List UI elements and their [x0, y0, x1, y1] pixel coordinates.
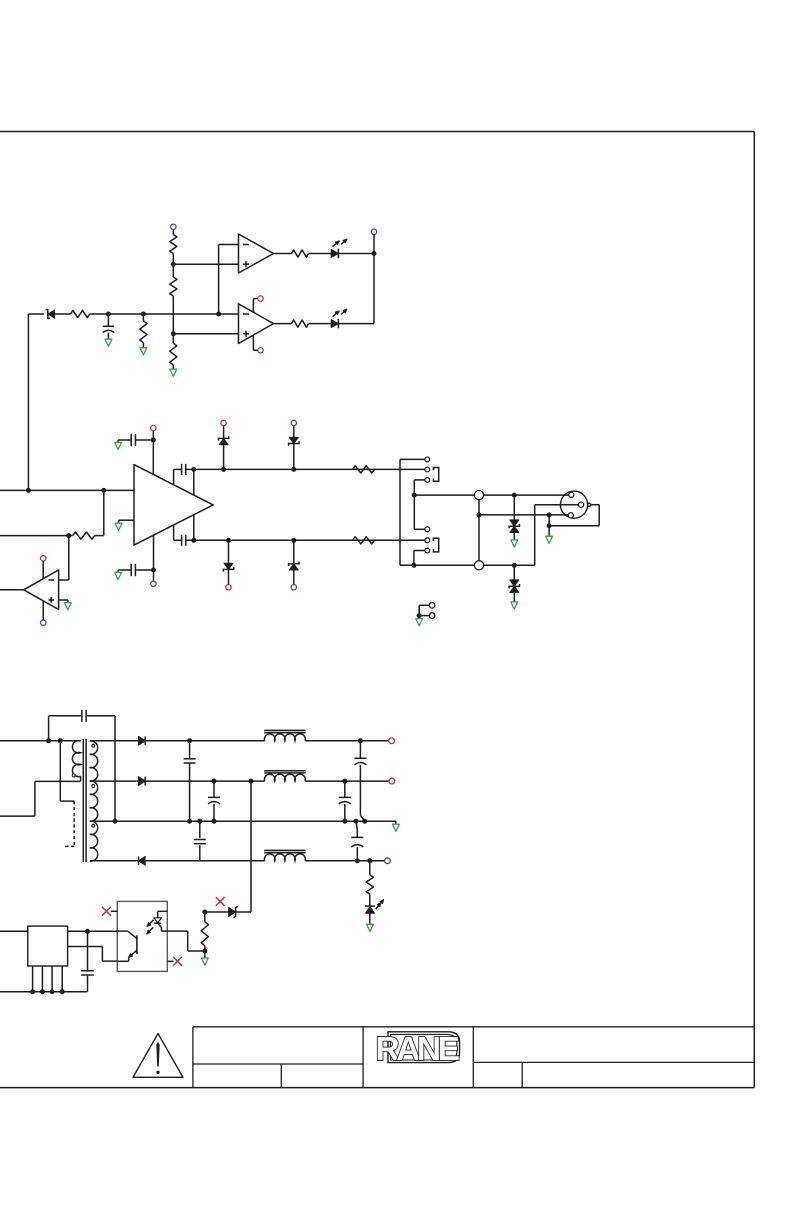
resistor R9 [353, 466, 375, 473]
resistor R4 [71, 310, 90, 317]
terminal D2 [221, 420, 226, 425]
node [212, 819, 217, 824]
wire [548, 515, 550, 526]
capacitor C4 [182, 464, 186, 475]
wire rail4 [90, 860, 385, 862]
binding post BP2 [474, 561, 483, 570]
capacitor C10 [339, 781, 351, 821]
capacitor C3 [118, 564, 153, 576]
wire [145, 740, 265, 742]
title block div-left [280, 1064, 282, 1088]
wire [172, 230, 174, 235]
resistor R6 [292, 250, 309, 257]
node [187, 819, 192, 824]
wire mains neutral [0, 776, 81, 816]
terminal LED bus [371, 229, 376, 234]
ground [115, 572, 122, 579]
wire [478, 500, 480, 561]
wire [68, 930, 118, 932]
capacitor C11 [194, 821, 206, 861]
node snubber left [46, 738, 51, 743]
transformer T1 primary [72, 741, 80, 777]
connector J4 [429, 603, 435, 619]
op-amp U1B [239, 304, 274, 344]
inductor L2 [264, 771, 305, 781]
zener D11 [229, 906, 251, 917]
wire post bus top [414, 494, 474, 496]
wire [250, 781, 252, 912]
wire [42, 561, 44, 579]
diode D10 [139, 856, 146, 865]
node input [26, 488, 31, 493]
node LED bus [372, 251, 377, 256]
terminal U2 V- [41, 620, 46, 625]
node [187, 738, 192, 743]
node [354, 819, 359, 824]
node [512, 563, 517, 568]
node ref-top [171, 262, 176, 267]
node [367, 858, 372, 863]
node [50, 989, 55, 994]
wire rail1 [90, 740, 139, 742]
sheet border right [753, 132, 755, 1088]
resistor R12 [201, 912, 208, 951]
zener D7 bidirectional [509, 565, 519, 602]
wire [186, 539, 425, 541]
node [85, 929, 90, 934]
wire to U1B + input [173, 333, 238, 335]
wire [204, 951, 206, 958]
capacitor C9 [208, 781, 220, 821]
ground [546, 536, 553, 543]
node [202, 910, 207, 915]
op-amp U1A [239, 234, 274, 273]
wire top rail from U3 [174, 469, 182, 484]
wire rail2 [90, 780, 139, 782]
zener D2 [218, 426, 228, 470]
wire J1 tip [400, 459, 474, 565]
zener D5 [289, 540, 299, 584]
wire [305, 780, 389, 782]
XLR shield tab [588, 503, 591, 506]
node [547, 512, 552, 517]
title block top [193, 1026, 754, 1028]
jack J2 (bottom) [425, 527, 439, 553]
wire [145, 780, 265, 782]
node [66, 533, 71, 538]
node [411, 563, 416, 568]
ground [201, 958, 208, 965]
node [358, 738, 363, 743]
wire [27, 314, 29, 490]
terminal D3 [291, 420, 296, 425]
connector XLR J3 shell [560, 491, 587, 518]
ground [511, 602, 518, 609]
wire [68, 947, 118, 962]
warning triangle [133, 1034, 183, 1078]
node [342, 779, 347, 784]
node [60, 989, 65, 994]
transformer T1 core [83, 739, 86, 862]
capacitor C1 [103, 314, 114, 339]
LED DS1 [331, 239, 347, 258]
capacitor C6 snubber [49, 710, 115, 821]
ground [416, 619, 423, 626]
wire U3 V- pin [153, 535, 155, 581]
capacitor C5 [182, 535, 186, 546]
wire U2 output [0, 589, 24, 591]
node U1A - link [216, 312, 221, 317]
wire U1B V- pin [253, 335, 258, 350]
node [417, 613, 422, 618]
resistor R8 [73, 532, 95, 539]
LED DS3 [365, 900, 383, 925]
wire [172, 296, 174, 343]
ground [105, 339, 112, 346]
wire bottom rail [0, 991, 88, 993]
zener D3 [289, 426, 299, 470]
terminal U3 V- [151, 581, 156, 586]
node [151, 568, 156, 573]
node zener top-right [291, 467, 296, 472]
transformer T1 secondary [90, 741, 98, 861]
ground [393, 824, 400, 831]
terminal -V rail [385, 858, 391, 864]
XLR pin 3 [579, 502, 584, 507]
wire U4 pins [33, 966, 63, 992]
wire U3 gnd pin [119, 520, 134, 523]
resistor R1 [170, 235, 177, 254]
node zener bot-right [291, 538, 296, 543]
wire pin1 bus [479, 514, 571, 516]
node R5 tap [141, 312, 146, 317]
wire shield dashed [65, 801, 74, 846]
logo RANE [376, 1031, 460, 1068]
node zener bot-left [226, 538, 231, 543]
node [30, 989, 35, 994]
node C1 tap [106, 312, 111, 317]
terminal D4 [226, 585, 231, 590]
wire [152, 431, 154, 475]
op-amp U2 [24, 570, 59, 610]
optocoupler U5 box [117, 901, 167, 971]
sheet border bottom [0, 1087, 754, 1089]
node [512, 493, 517, 498]
resistor R7 [292, 320, 309, 327]
node [362, 819, 367, 824]
wire shield link [60, 741, 74, 801]
node [342, 819, 347, 824]
binding post BP1 [474, 491, 483, 500]
terminal +V2 rail [389, 778, 395, 784]
wire [484, 494, 572, 496]
wire [193, 515, 195, 540]
wire [338, 253, 374, 255]
ground [367, 924, 374, 931]
wire to U1A - input [219, 244, 239, 246]
node [547, 523, 552, 528]
wire [338, 323, 374, 325]
wire [103, 490, 105, 535]
terminal U3 V+ [151, 425, 156, 430]
zener D6 bidirectional [509, 495, 519, 540]
wire [95, 535, 104, 537]
wire J2 sleeve [414, 551, 425, 566]
wire [274, 253, 292, 255]
wire [369, 894, 371, 906]
resistor R2 [170, 277, 177, 296]
U5 internal LED [154, 911, 167, 931]
node [412, 493, 417, 498]
node feedback tap [101, 488, 106, 493]
title block mid-right [473, 1061, 754, 1063]
wire [369, 861, 371, 875]
wire rail3 CT [90, 820, 396, 822]
no-connect X [173, 957, 182, 966]
node [40, 989, 45, 994]
wire input [0, 489, 134, 491]
resistor R11 [366, 875, 373, 894]
node shield [58, 738, 63, 743]
terminal V+ ref divider [171, 224, 176, 229]
wire [90, 313, 239, 315]
wire [418, 616, 420, 619]
capacitor C2 [118, 434, 153, 446]
XLR pin 2 [569, 492, 574, 497]
title block mid-left [193, 1063, 363, 1065]
node [191, 538, 196, 543]
XLR pin 1 [568, 513, 573, 518]
ground [115, 523, 122, 530]
node ref-bottom [171, 331, 176, 336]
capacitor C8 [354, 741, 366, 821]
terminal +V rail [389, 738, 395, 744]
wire [172, 365, 174, 369]
resistor R5 [140, 314, 147, 348]
wire [193, 469, 195, 494]
node [202, 949, 207, 954]
title block v2 [472, 1027, 474, 1088]
node [212, 779, 217, 784]
wire [186, 468, 425, 470]
wire J1 sleeve [414, 480, 425, 529]
ground [115, 442, 122, 449]
diode D8 [139, 736, 146, 745]
wire [218, 245, 220, 315]
wire [309, 253, 332, 255]
wire rail3 gnd [395, 821, 397, 824]
ground [65, 603, 72, 610]
wire [88, 930, 118, 932]
U5 phototransistor [117, 931, 137, 961]
title block div-right [521, 1062, 523, 1087]
diode D9 [139, 777, 146, 786]
wire U2 + to gnd [59, 600, 68, 603]
wire [419, 605, 429, 615]
no-connect X [102, 907, 111, 916]
zener D4 [223, 540, 233, 584]
title block v1 [362, 1027, 364, 1088]
resistor R3 [170, 343, 177, 365]
inductor L1 [264, 730, 305, 740]
ground [140, 348, 147, 355]
diode D1 zener [46, 310, 71, 319]
capacitor C7 [184, 741, 196, 821]
LED DS2 [331, 309, 347, 328]
capacitor C13 [81, 931, 94, 991]
wire U5 cathode out [167, 931, 205, 951]
ground [511, 540, 518, 547]
node [477, 512, 482, 517]
wire U1B V+ pin [253, 299, 258, 313]
U5 emission arrows [147, 920, 154, 934]
terminal U1B V- [258, 348, 263, 353]
wire [172, 254, 174, 278]
wire [373, 234, 375, 323]
jack J1 (top) [425, 457, 439, 482]
wire pin3 link [535, 505, 581, 566]
title block left [192, 1027, 194, 1088]
node zener top-left [221, 467, 226, 472]
terminal U1B V+ [258, 296, 263, 301]
power amp U3 [134, 465, 213, 545]
terminal D5 [291, 585, 296, 590]
wire to U1A + input [173, 263, 238, 265]
wire [484, 564, 535, 566]
wire U5 pin stub [111, 910, 117, 912]
wire [0, 930, 28, 932]
no-connect X [216, 897, 225, 906]
wire shield [549, 505, 599, 526]
node [355, 858, 360, 863]
sheet border top [0, 131, 754, 133]
wire U5 nc stub [167, 960, 173, 962]
svg-text:RANE: RANE [376, 1031, 460, 1068]
wire mains hot [0, 740, 81, 742]
wire input rail [28, 313, 44, 315]
wire opto bias [205, 911, 229, 913]
node regulator feed [249, 779, 254, 784]
wire [305, 740, 389, 742]
wire [42, 601, 44, 620]
node [151, 438, 156, 443]
wire [548, 526, 550, 537]
ground [170, 369, 177, 376]
node [113, 819, 118, 824]
wire [309, 323, 332, 325]
terminal U2 V+ [41, 556, 46, 561]
wire bottom rail from U3 [174, 526, 182, 541]
node [191, 467, 196, 472]
wire feedback [0, 535, 73, 537]
wire [274, 323, 292, 325]
capacitor C12 [351, 821, 363, 861]
node [197, 819, 202, 824]
regulator U4 [28, 926, 68, 966]
wire [59, 536, 69, 580]
inductor L3 [264, 850, 305, 860]
resistor R10 [353, 537, 375, 544]
